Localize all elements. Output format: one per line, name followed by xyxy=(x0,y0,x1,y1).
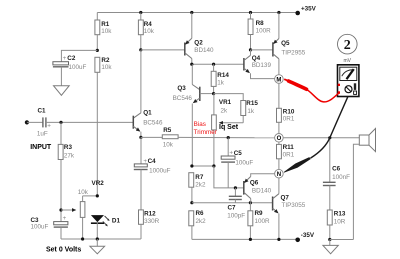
svg-text:R14: R14 xyxy=(217,72,229,79)
junction VR2 wiper tap xyxy=(59,208,62,211)
svg-text:O: O xyxy=(277,136,282,142)
wire +35V top rail xyxy=(97,12,297,14)
svg-text:TIP3055: TIP3055 xyxy=(282,202,306,209)
svg-text:R15: R15 xyxy=(246,100,258,107)
junction VR2 top on LED column xyxy=(96,194,99,197)
junction R13 bottom / speaker return xyxy=(328,238,331,241)
LED D1 xyxy=(91,215,121,239)
svg-text:Bias: Bias xyxy=(194,121,206,128)
svg-text:-35V: -35V xyxy=(301,232,315,239)
svg-text:R11: R11 xyxy=(283,144,295,151)
junction R8 bottom / Q4 collector / Q5 base xyxy=(249,48,252,51)
potentiometer VR2 xyxy=(61,180,104,239)
node N xyxy=(275,169,284,178)
svg-text:0R1: 0R1 xyxy=(283,151,295,158)
capacitor C7 xyxy=(227,188,245,220)
svg-text:10R: 10R xyxy=(334,219,346,226)
wire Q5 base xyxy=(251,49,273,51)
junction C7 top xyxy=(234,186,237,189)
junction top rail at R8 xyxy=(249,11,252,14)
node O xyxy=(275,134,284,143)
svg-text:mV: mV xyxy=(344,58,352,64)
junction VR1 bottom xyxy=(212,164,215,167)
svg-text:10k: 10k xyxy=(78,189,89,196)
svg-text:C6: C6 xyxy=(332,166,341,173)
svg-text:N: N xyxy=(277,172,281,178)
wire C1 to Q1 base xyxy=(46,121,133,123)
transistor Q6 xyxy=(244,174,275,203)
svg-text:2k2: 2k2 xyxy=(196,218,207,225)
junction C5 top xyxy=(227,136,230,139)
svg-text:R4: R4 xyxy=(144,21,153,28)
svg-text:27k: 27k xyxy=(64,152,75,159)
svg-text:R13: R13 xyxy=(334,211,346,218)
junction top rail at Q5 emitter xyxy=(277,11,280,14)
ground C2 xyxy=(54,86,70,96)
multimeter U1 xyxy=(338,65,359,97)
junction R3 top xyxy=(59,121,62,124)
junction Q2 collector xyxy=(190,63,193,66)
svg-text:R1: R1 xyxy=(101,21,110,28)
resistor R10 xyxy=(277,83,295,133)
wire bottom -35V rail xyxy=(192,238,298,240)
svg-text:10k: 10k xyxy=(101,28,112,35)
capacitor C6 xyxy=(323,138,350,210)
svg-text:BD140: BD140 xyxy=(252,187,272,194)
svg-text:+: + xyxy=(63,215,67,222)
svg-text:Q2: Q2 xyxy=(194,39,203,46)
label Bias Trimmer xyxy=(194,121,217,136)
svg-text:100uF: 100uF xyxy=(69,64,87,71)
resistor R11 xyxy=(277,142,295,169)
junction Q6 collector / R9 top xyxy=(249,201,252,204)
wire node O to speaker xyxy=(283,137,359,139)
wire to C2 xyxy=(61,50,97,61)
svg-text:BC546: BC546 xyxy=(173,95,193,102)
svg-text:100R: 100R xyxy=(255,218,271,225)
svg-text:C7: C7 xyxy=(228,205,237,212)
junction R1/R2/C2 xyxy=(96,49,99,52)
svg-text:Q7: Q7 xyxy=(281,194,290,201)
input terminal xyxy=(25,120,29,124)
wire feedback node link xyxy=(192,165,214,167)
transistor Q4 xyxy=(244,50,275,79)
svg-text:100uF: 100uF xyxy=(31,224,49,231)
wire VAS rail y64 xyxy=(192,63,244,65)
svg-text:0R1: 0R1 xyxy=(283,115,295,122)
terminal -35V xyxy=(295,238,300,243)
svg-text:+: + xyxy=(63,55,67,62)
svg-text:Q3: Q3 xyxy=(177,85,186,92)
resistor R4 xyxy=(138,13,154,50)
svg-text:D1: D1 xyxy=(112,217,121,224)
junction top rail at Q2 emitter xyxy=(190,11,193,14)
resistor R2 xyxy=(95,57,113,196)
transistor Q3 xyxy=(173,64,214,166)
svg-text:100R: 100R xyxy=(256,27,272,34)
svg-text:C5: C5 xyxy=(234,150,243,157)
resistor R13 xyxy=(327,210,346,240)
capacitor C3 xyxy=(31,215,68,239)
junction top rail at R4 xyxy=(139,11,142,14)
svg-text:2k: 2k xyxy=(221,108,229,115)
resistor R5 xyxy=(141,127,178,148)
red probe wire xyxy=(284,79,338,102)
resistor R15 xyxy=(241,100,259,123)
black probe wire xyxy=(284,97,348,173)
svg-text:1000uF: 1000uF xyxy=(149,167,171,174)
svg-text:100pF: 100pF xyxy=(227,213,245,220)
svg-text:1k: 1k xyxy=(217,79,225,86)
svg-text:100nF: 100nF xyxy=(332,174,350,181)
resistor R12 xyxy=(139,210,160,239)
svg-text:330R: 330R xyxy=(144,218,160,225)
wire lower base rail y202 xyxy=(192,202,273,204)
capacitor C5 xyxy=(221,138,253,188)
svg-text:Q5: Q5 xyxy=(281,40,290,47)
junction R14 top xyxy=(212,63,215,66)
svg-text:BD140: BD140 xyxy=(194,47,214,54)
svg-text:VR2: VR2 xyxy=(92,180,105,187)
junction R14 bottom / Q3 base / VR1 top xyxy=(212,92,215,95)
node M xyxy=(275,75,284,84)
svg-text:R3: R3 xyxy=(64,144,73,151)
svg-text:2k2: 2k2 xyxy=(195,182,206,189)
svg-text:R8: R8 xyxy=(256,20,265,27)
resistor R6 xyxy=(189,210,206,239)
resistor R14 xyxy=(211,64,229,93)
svg-text:2: 2 xyxy=(344,38,351,53)
svg-text:Iq Set: Iq Set xyxy=(219,124,239,131)
svg-text:+: + xyxy=(47,123,51,130)
ground output xyxy=(323,240,338,254)
capacitor C2 xyxy=(53,55,87,86)
wire bottom-left ground rail xyxy=(61,238,141,240)
wire R5 to node O rail xyxy=(178,136,275,138)
svg-text:M: M xyxy=(276,77,281,83)
svg-text:R9: R9 xyxy=(255,210,264,217)
capacitor C4 xyxy=(134,137,171,210)
svg-text:R12: R12 xyxy=(144,211,156,218)
resistor R1 xyxy=(95,13,112,51)
junction Q7 emitter xyxy=(277,238,280,241)
svg-text:Q4: Q4 xyxy=(252,55,261,62)
speaker xyxy=(353,129,375,240)
resistor R7 xyxy=(189,173,206,203)
transistor Q5 xyxy=(273,13,306,75)
svg-text:1uF: 1uF xyxy=(37,130,48,137)
transistor Q2 xyxy=(185,13,214,65)
junction R7 bottom / wire to Q7 base xyxy=(190,201,193,204)
svg-text:Trimmer: Trimmer xyxy=(194,129,217,136)
junction R4 bottom / Q2 base / Q1 collector xyxy=(139,48,142,51)
resistor R8 xyxy=(248,13,271,50)
wire to R15 top xyxy=(214,94,244,101)
svg-text:BC546: BC546 xyxy=(143,119,163,126)
svg-text:10k: 10k xyxy=(101,64,112,71)
svg-text:10k: 10k xyxy=(144,28,155,35)
junction VR2 bottom xyxy=(81,237,84,240)
svg-text:R6: R6 xyxy=(196,210,205,217)
wire input to C1 xyxy=(27,121,43,123)
svg-text:C4: C4 xyxy=(148,158,157,165)
junction R7 top xyxy=(190,164,193,167)
svg-text:Set 0 Volts: Set 0 Volts xyxy=(46,247,81,254)
potentiometer VR1 xyxy=(212,94,244,166)
wire R4 to Q2 base xyxy=(141,49,185,51)
meter step circle 2 xyxy=(338,34,358,54)
svg-text:+35V: +35V xyxy=(301,6,317,13)
svg-text:1k: 1k xyxy=(247,108,255,115)
svg-text:BD139: BD139 xyxy=(252,62,272,69)
junction Q1 emitter / C4 / R5 xyxy=(139,136,142,139)
svg-text:INPUT: INPUT xyxy=(30,144,52,151)
svg-text:R2: R2 xyxy=(101,57,110,64)
capacitor C1 xyxy=(37,108,51,138)
svg-text:10k: 10k xyxy=(163,141,174,148)
svg-text:Q1: Q1 xyxy=(143,110,152,117)
junction D1 cathode xyxy=(96,237,99,240)
transistor Q1 xyxy=(133,50,163,137)
resistor R9 xyxy=(248,203,270,240)
terminal +35V xyxy=(295,11,300,16)
ground 0V xyxy=(90,239,105,254)
svg-text:VR1: VR1 xyxy=(219,99,232,106)
resistor R3 xyxy=(58,122,75,221)
junction C6 top xyxy=(328,136,331,139)
svg-text:R10: R10 xyxy=(283,108,295,115)
svg-text:Q6: Q6 xyxy=(250,179,259,186)
junction R9 bottom xyxy=(249,238,252,241)
wire VR1 bottom to Q6 base xyxy=(214,166,244,188)
transistor Q7 xyxy=(273,178,306,239)
svg-text:C1: C1 xyxy=(38,108,47,115)
svg-text:TIP2955: TIP2955 xyxy=(281,50,305,57)
svg-text:R5: R5 xyxy=(163,127,172,134)
svg-text:C2: C2 xyxy=(67,55,76,62)
svg-text:100uF: 100uF xyxy=(235,159,253,166)
svg-text:R7: R7 xyxy=(195,174,204,181)
wire R13 to speaker return xyxy=(330,239,354,241)
